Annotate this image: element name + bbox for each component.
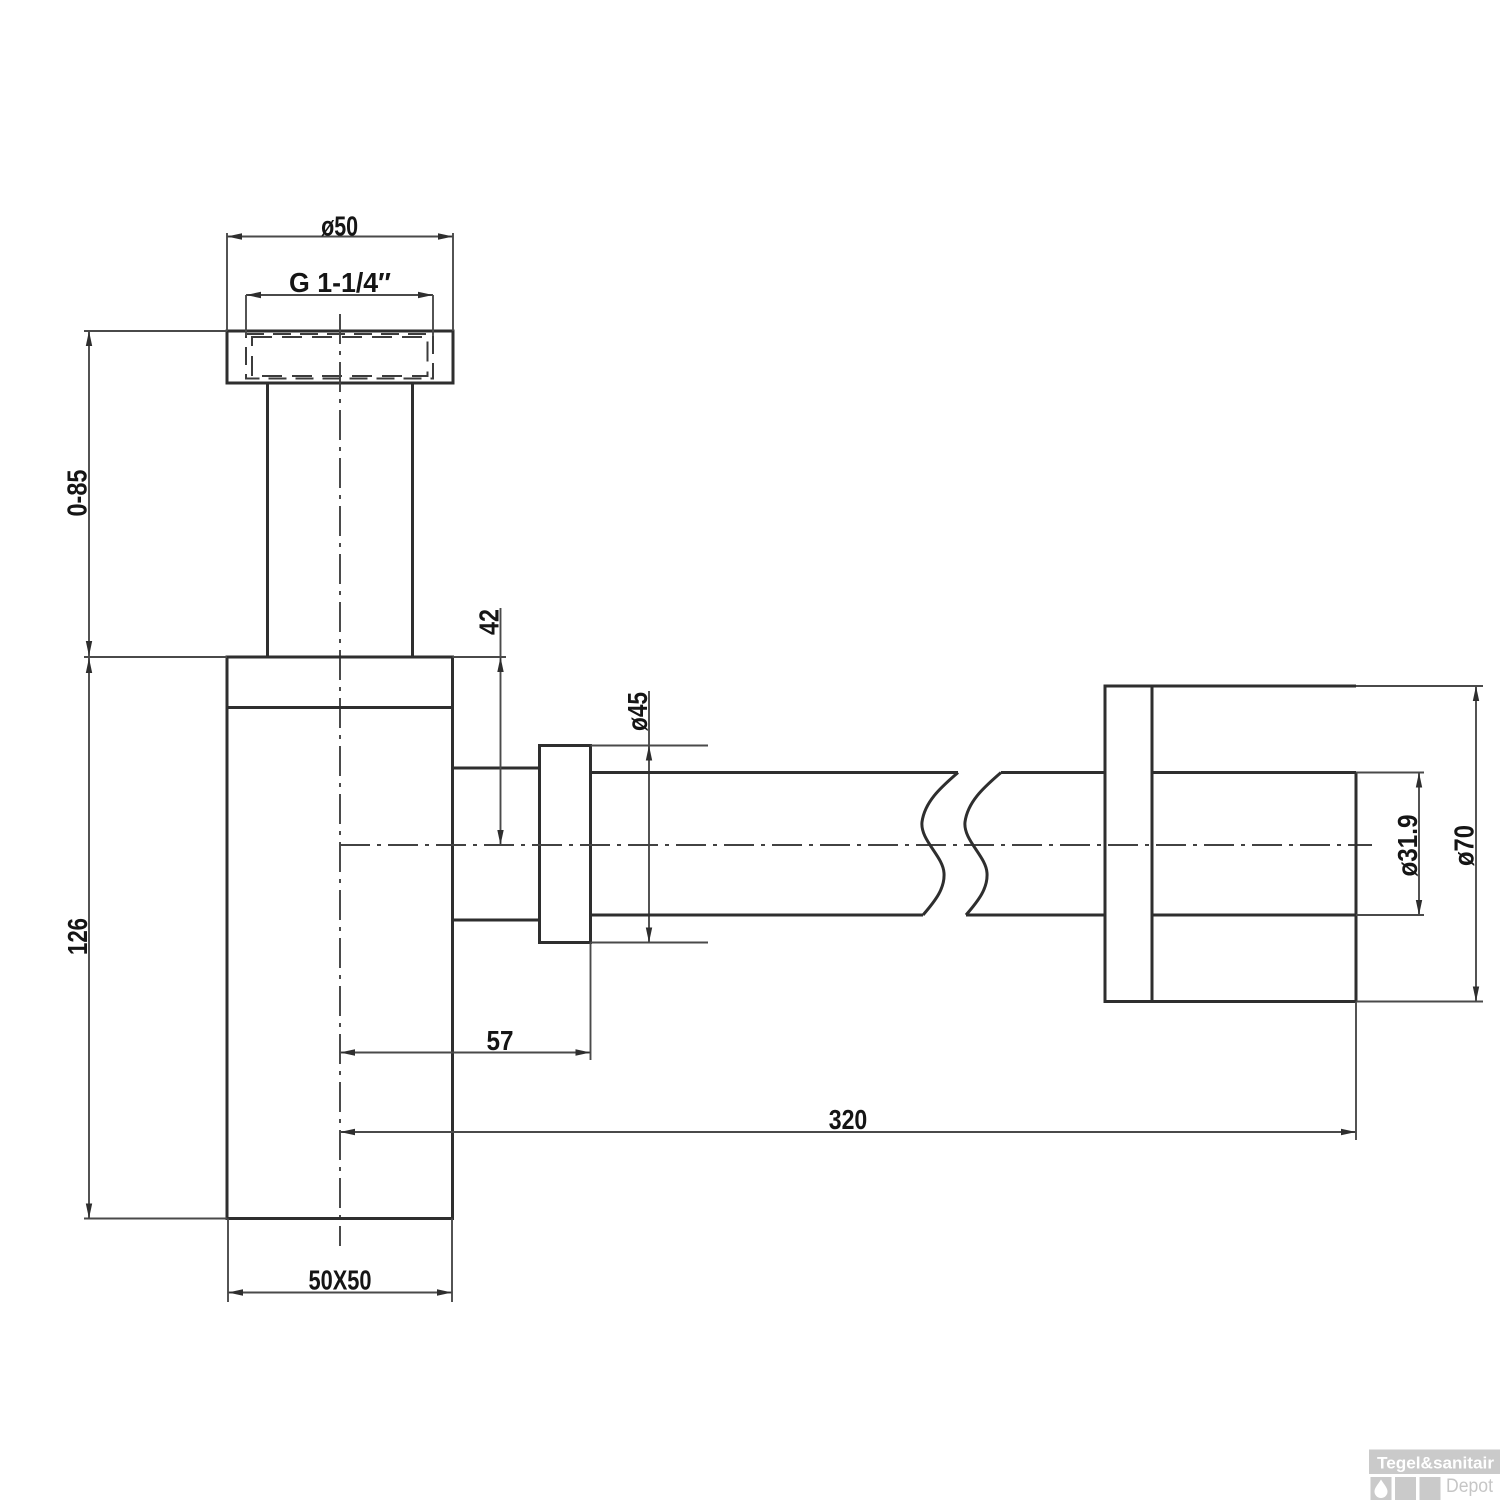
watermark square 1 [1371,1477,1392,1500]
svg-text:Depot: Depot [1446,1476,1494,1497]
arrow 57 right [576,1049,591,1055]
dim ø50 line [227,236,453,238]
svg-text:Tegel&sanitair: Tegel&sanitair [1377,1454,1494,1473]
svg-text:ø45: ø45 [622,692,653,731]
svg-text:0-85: 0-85 [62,470,93,517]
svg-text:G 1-1/4″: G 1-1/4″ [289,267,391,298]
svg-text:ø70: ø70 [1449,825,1480,866]
outlet pipe stub top [453,767,540,770]
arrow 126 bottom [86,1204,92,1219]
dim 320 extension (pipe end down) [1355,1002,1357,1141]
pipe inside socket bottom [1152,914,1356,917]
break wave right [965,773,1001,916]
dim 0-85 line [88,331,90,657]
outlet pipe stub bottom [453,919,540,922]
arrow 320 left [340,1129,355,1135]
arrow 0-85 top [86,331,92,346]
svg-text:42: 42 [474,609,505,635]
dim ø70 extension bottom [1356,1001,1483,1003]
arrow 126 top [86,658,92,673]
dim ø45 extension top [591,745,709,747]
svg-text:126: 126 [62,918,93,955]
arrow ø31.9 bottom [1416,900,1422,915]
dim 57 line [340,1052,591,1054]
break wave left [922,773,958,916]
dim G extension left [245,295,247,336]
dim ø31.9 extension top [1356,772,1424,774]
dim ø45 line [648,691,650,943]
arrow ø50 right [438,233,453,239]
watermark banner [1369,1450,1500,1475]
arrow ø45 top [646,746,652,761]
wall flange plate [1105,686,1152,1002]
compression nut [540,746,591,943]
watermark square 3 [1420,1477,1441,1500]
vertical centerline [339,314,341,1246]
extension line flange top left [84,330,227,332]
dim ø31.9 line [1418,773,1420,916]
wall pipe segment top (nut to break) [591,771,959,774]
wall socket top [1152,685,1356,688]
svg-text:ø31.9: ø31.9 [1392,815,1423,877]
thread dashed outline G 1-1/4 [246,334,433,379]
arrow G right [418,292,433,298]
svg-text:320: 320 [829,1104,868,1135]
svg-text:57: 57 [487,1025,514,1056]
dim ø70 line [1475,686,1477,1002]
dim ø50 extension right [452,233,454,331]
arrow ø45 bottom [646,928,652,943]
pipe inside socket top [1152,771,1356,774]
horizontal pipe centerline [340,844,1372,846]
extension line body bottom left [84,1218,227,1220]
arrow 50X50 right [437,1289,452,1295]
trap body [227,657,453,1219]
dim ø50 extension left [226,233,228,331]
dim 126 line [88,658,90,1219]
arrow G left [246,292,261,298]
wall pipe segment bottom (break to wall flange) [966,914,1105,917]
svg-text:ø50: ø50 [321,211,358,242]
watermark drop icon [1375,1480,1388,1499]
dim 50X50 extension right [451,1219,453,1303]
dim 50X50 extension left [227,1219,229,1303]
dim 57 extension (nut right edge down) [590,943,592,1061]
top flange (sink escutcheon) [227,331,453,383]
arrow ø70 top [1473,686,1479,701]
dim 42 line [500,608,502,845]
dim 50X50 line [228,1292,452,1294]
pipe end [1355,773,1358,1002]
arrow 0-85 bottom [86,641,92,656]
watermark square 2 [1395,1477,1416,1500]
thread inner wall [252,337,428,376]
arrow 42 bottom [497,830,503,845]
wall pipe segment top (break to wall flange) [1001,771,1105,774]
tailpiece tube [266,383,269,657]
dim ø70 extension top [1356,685,1483,687]
body cap joint line [227,706,453,709]
extension line body top left [84,656,227,658]
dim ø31.9 extension bottom [1356,914,1424,916]
dim ø45 extension bottom [591,942,709,944]
arrow ø70 bottom [1473,987,1479,1002]
svg-text:50X50: 50X50 [309,1265,372,1296]
wall socket bottom [1152,1000,1356,1003]
arrow 50X50 left [228,1289,243,1295]
arrow ø50 left [227,233,242,239]
arrow 42 top [497,657,503,672]
dim G line [246,294,433,296]
extension body top right for 42 [453,656,507,658]
dim G extension right [432,295,434,336]
arrow 320 right [1341,1129,1356,1135]
arrow 57 left [340,1049,355,1055]
wall pipe segment bottom (nut to break) [591,914,924,917]
dim 320 line [340,1131,1356,1133]
arrow ø31.9 top [1416,773,1422,788]
